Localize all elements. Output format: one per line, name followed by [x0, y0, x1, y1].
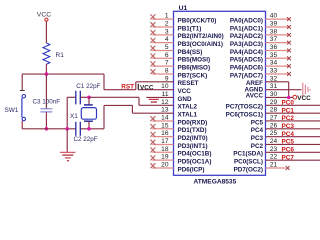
- svg-text:PD3(INT1): PD3(INT1): [178, 143, 208, 150]
- svg-text:PB5(MOSI): PB5(MOSI): [178, 57, 211, 64]
- svg-text:17: 17: [161, 138, 169, 145]
- svg-text:C3 100nF: C3 100nF: [33, 98, 61, 105]
- svg-text:PC4: PC4: [282, 131, 295, 138]
- svg-text:2: 2: [165, 20, 169, 27]
- svg-text:PC2: PC2: [251, 143, 264, 150]
- svg-text:5: 5: [165, 44, 169, 51]
- svg-text:XTAL2: XTAL2: [178, 104, 198, 111]
- svg-text:PA4(ADC4): PA4(ADC4): [230, 49, 263, 56]
- svg-text:R1: R1: [56, 52, 65, 59]
- svg-text:VCC: VCC: [178, 88, 192, 95]
- svg-text:PA3(ADC3): PA3(ADC3): [230, 41, 263, 48]
- svg-text:PD0(RXD): PD0(RXD): [178, 119, 208, 126]
- svg-text:X1: X1: [70, 113, 78, 120]
- svg-text:PD6(ICP): PD6(ICP): [178, 166, 205, 173]
- svg-text:PA7(ADC7): PA7(ADC7): [230, 72, 263, 79]
- svg-text:GND: GND: [178, 96, 192, 103]
- svg-text:7: 7: [165, 60, 169, 67]
- svg-text:RST: RST: [121, 83, 134, 90]
- svg-text:PC1: PC1: [282, 107, 295, 114]
- svg-text:19: 19: [161, 154, 169, 161]
- svg-text:PD7(OC2): PD7(OC2): [234, 166, 263, 173]
- svg-text:PC2: PC2: [282, 115, 295, 122]
- svg-text:SW1: SW1: [5, 107, 19, 114]
- svg-text:4: 4: [165, 36, 169, 43]
- svg-text:1: 1: [165, 13, 169, 20]
- svg-text:PD1(TXD): PD1(TXD): [178, 127, 207, 134]
- svg-text:PA5(ADC5): PA5(ADC5): [230, 57, 263, 64]
- svg-text:C1 22pF: C1 22pF: [76, 83, 100, 90]
- svg-text:XTAL1: XTAL1: [178, 111, 198, 118]
- svg-text:AVCC: AVCC: [246, 92, 264, 99]
- svg-text:PD2(INT0): PD2(INT0): [178, 135, 208, 142]
- svg-text:14: 14: [161, 114, 169, 121]
- svg-text:PC3: PC3: [251, 135, 264, 142]
- svg-text:PC3: PC3: [282, 123, 295, 130]
- svg-text:ATMEGA8535: ATMEGA8535: [194, 178, 237, 185]
- svg-text:PC7: PC7: [282, 154, 295, 161]
- svg-text:PC0(SCL): PC0(SCL): [234, 158, 263, 165]
- svg-text:RESET: RESET: [178, 80, 199, 87]
- svg-text:PB3(OC0/AIN1): PB3(OC0/AIN1): [178, 41, 224, 48]
- svg-text:PA6(ADC6): PA6(ADC6): [230, 64, 263, 71]
- svg-text:PC5: PC5: [251, 119, 264, 126]
- svg-text:20: 20: [161, 161, 169, 168]
- svg-text:PA1(ADC1): PA1(ADC1): [230, 25, 263, 32]
- svg-text:C2 22pF: C2 22pF: [74, 136, 98, 143]
- svg-text:PD5(OC1A): PD5(OC1A): [178, 158, 212, 165]
- svg-text:3: 3: [165, 28, 169, 35]
- svg-text:PB0(XCK/T0): PB0(XCK/T0): [178, 17, 217, 24]
- svg-text:PC4: PC4: [251, 127, 264, 134]
- svg-text:8: 8: [165, 67, 169, 74]
- svg-text:PC5: PC5: [282, 139, 295, 146]
- svg-text:PB7(SCK): PB7(SCK): [178, 72, 208, 79]
- svg-text:PC0: PC0: [282, 100, 295, 107]
- svg-text:18: 18: [161, 146, 169, 153]
- svg-text:PD4(OC1B): PD4(OC1B): [178, 151, 212, 158]
- svg-text:PA0(ADC0): PA0(ADC0): [230, 17, 263, 24]
- svg-text:6: 6: [165, 52, 169, 59]
- svg-text:PB4(SS): PB4(SS): [178, 49, 203, 56]
- svg-text:16: 16: [161, 130, 169, 137]
- svg-text:PB1(T1): PB1(T1): [178, 25, 202, 32]
- svg-text:PC6: PC6: [282, 147, 295, 154]
- svg-text:PB6(MISO): PB6(MISO): [178, 64, 211, 71]
- svg-text:U1: U1: [179, 5, 188, 12]
- svg-text:PC7(TOSC2): PC7(TOSC2): [226, 104, 263, 111]
- svg-text:PB2(INT2/AIN0): PB2(INT2/AIN0): [178, 33, 224, 40]
- svg-text:PC1(SDA): PC1(SDA): [233, 151, 263, 158]
- svg-text:PC6(TOSC1): PC6(TOSC1): [226, 111, 263, 118]
- svg-text:VCC: VCC: [140, 84, 154, 91]
- svg-text:VCC: VCC: [37, 11, 51, 18]
- svg-text:15: 15: [161, 122, 169, 129]
- svg-text:PA2(ADC2): PA2(ADC2): [230, 33, 263, 40]
- svg-text:VCC: VCC: [297, 95, 311, 102]
